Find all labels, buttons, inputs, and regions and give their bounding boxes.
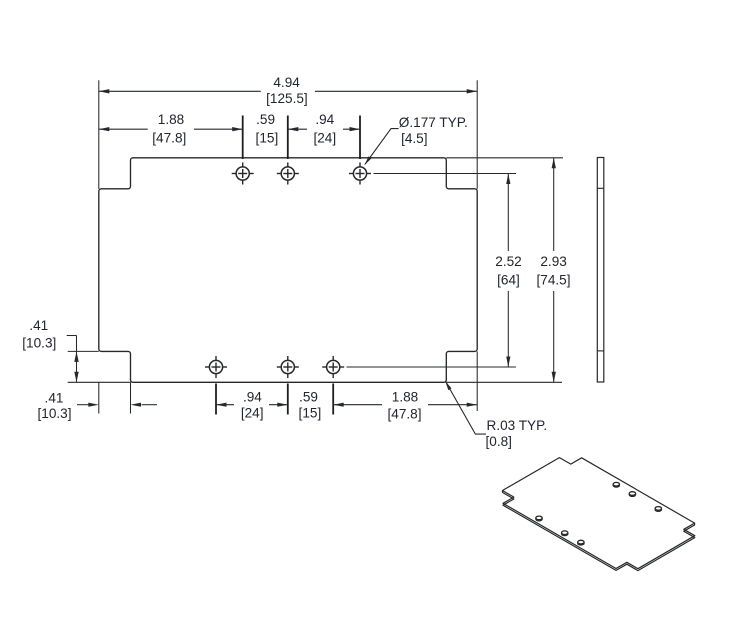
svg-text:[47.8]: [47.8]	[152, 131, 186, 146]
svg-text:[24]: [24]	[313, 131, 336, 146]
svg-text:[47.8]: [47.8]	[387, 406, 421, 421]
svg-text:.59: .59	[299, 390, 318, 405]
svg-text:Ø.177 TYP.: Ø.177 TYP.	[399, 115, 468, 130]
svg-text:[15]: [15]	[299, 405, 322, 420]
svg-text:.59: .59	[256, 112, 275, 127]
svg-text:4.94: 4.94	[273, 75, 300, 90]
svg-text:.41: .41	[29, 318, 48, 333]
svg-text:[24]: [24]	[241, 405, 264, 420]
svg-text:[10.3]: [10.3]	[37, 406, 71, 421]
svg-text:[0.8]: [0.8]	[486, 434, 512, 449]
svg-text:[125.5]: [125.5]	[266, 91, 308, 106]
svg-text:2.93: 2.93	[540, 254, 566, 269]
svg-text:.41: .41	[45, 390, 64, 405]
svg-text:2.52: 2.52	[495, 254, 521, 269]
svg-text:.94: .94	[243, 390, 262, 405]
svg-text:R.03 TYP.: R.03 TYP.	[487, 418, 548, 433]
svg-text:1.88: 1.88	[392, 390, 418, 405]
svg-text:[4.5]: [4.5]	[401, 131, 427, 146]
svg-text:[74.5]: [74.5]	[536, 273, 570, 288]
svg-text:1.88: 1.88	[158, 112, 184, 127]
svg-text:[10.3]: [10.3]	[22, 335, 56, 350]
svg-text:.94: .94	[315, 112, 334, 127]
svg-text:[64]: [64]	[497, 273, 520, 288]
svg-text:[15]: [15]	[256, 131, 279, 146]
